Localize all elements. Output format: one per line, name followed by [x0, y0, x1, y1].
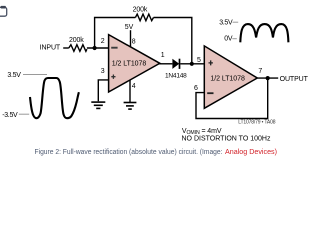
wire: R1 to op-amp U1 pin 2	[87, 47, 109, 49]
svg-text:6: 6	[194, 85, 198, 92]
wire: U2 output to OUTPUT	[258, 77, 279, 79]
plus sign U2	[209, 60, 213, 65]
wire: feedback vertical left	[95, 18, 136, 49]
resistor R1 200k (input)	[69, 45, 87, 52]
wire: pin 3 to ground	[98, 80, 108, 101]
op-amp U2 1/2 LT1078	[204, 46, 257, 108]
svg-text:Figure 2: Full-wave rectificat: Figure 2: Full-wave rectification (absol…	[35, 149, 223, 156]
minus sign U2	[207, 92, 213, 94]
svg-text:5: 5	[197, 57, 201, 64]
svg-text:1/2 LT1078: 1/2 LT1078	[210, 75, 245, 82]
node junction: summing node at pin 2	[93, 46, 97, 50]
diode D1 1N4148	[172, 59, 179, 69]
svg-text:1/2 LT1078: 1/2 LT1078	[112, 61, 147, 68]
wire: INPUT to R1	[63, 47, 69, 49]
node junction: output node	[266, 76, 270, 80]
svg-text:1N4148: 1N4148	[165, 72, 187, 79]
svg-text:OUTPUT: OUTPUT	[280, 76, 309, 83]
resistor R2 200k (feedback)	[135, 14, 153, 21]
leader line 0V	[232, 38, 237, 40]
svg-text:INPUT: INPUT	[40, 45, 61, 52]
plus sign U1	[111, 75, 115, 79]
svg-text:0V: 0V	[224, 35, 233, 42]
wire: U1 output to diode	[159, 63, 172, 65]
pin 8 supply stub	[130, 30, 132, 47]
svg-text:-3.5V: -3.5V	[2, 112, 18, 119]
wire: feedback loop U2 (pin6 - down - right - up to output)	[196, 78, 268, 118]
svg-text:2: 2	[101, 38, 105, 45]
ground (pin 4)	[124, 103, 137, 110]
minus sign U1	[111, 47, 117, 49]
clipped page icon (top-left)	[0, 6, 7, 16]
wire: diode to U2 pin 5	[180, 63, 205, 65]
svg-text:3.5V: 3.5V	[7, 72, 21, 79]
svg-text:4: 4	[132, 83, 136, 90]
leader line 3.5V	[23, 74, 47, 76]
op-amp U1 1/2 LT1078	[109, 35, 160, 92]
svg-text:200k: 200k	[133, 6, 148, 13]
svg-text:200k: 200k	[69, 37, 84, 44]
leader line -3.5V	[19, 113, 29, 115]
output rectified waveform	[240, 24, 288, 42]
svg-text:8: 8	[132, 39, 136, 46]
svg-text:NO DISTORTION TO 100Hz: NO DISTORTION TO 100Hz	[182, 135, 271, 142]
svg-text:LT1078/79 • TA08: LT1078/79 • TA08	[238, 120, 276, 126]
svg-text:5V: 5V	[125, 24, 134, 31]
node junction: diode/feedback node	[190, 62, 194, 66]
svg-text:3: 3	[101, 68, 105, 75]
svg-text:7: 7	[258, 68, 262, 75]
svg-text:Analog Devices): Analog Devices)	[225, 149, 277, 156]
input sine waveform	[30, 78, 79, 118]
leader line 3.5V output	[233, 21, 239, 23]
wire: R2 to right vertical down to diode node	[154, 18, 192, 64]
svg-text:1: 1	[161, 52, 165, 59]
pin 4 stub	[129, 80, 131, 102]
ground (pin 3)	[91, 102, 105, 108]
svg-text:3.5V: 3.5V	[219, 19, 233, 26]
